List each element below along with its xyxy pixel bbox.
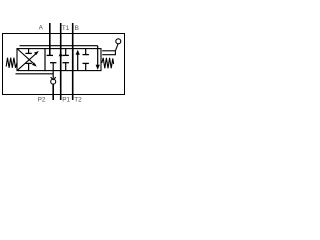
center box flow arrow P1 to T1 — [59, 52, 63, 56]
svg-text:A: A — [39, 24, 44, 31]
right box blocked port bottom — [85, 64, 87, 71]
center box blocked port P2 — [52, 63, 54, 71]
lever knob — [116, 39, 121, 44]
center box blocked port A — [47, 54, 53, 56]
right return spring — [102, 58, 114, 69]
valve position box right — [73, 49, 101, 71]
left return spring — [6, 58, 17, 68]
outer border frame — [3, 34, 125, 95]
left box blocked port top — [28, 49, 30, 54]
svg-text:T2: T2 — [74, 97, 82, 104]
lever fork upper line — [102, 50, 115, 52]
valve position box left — [17, 49, 45, 71]
port line A — [49, 23, 51, 55]
left box crossed arrow up-right — [18, 52, 38, 70]
valve position box center — [45, 49, 73, 71]
left box crossed arrow down-right — [18, 49, 36, 65]
wire top rail — [20, 45, 98, 47]
wire T1-P1 vertical — [60, 23, 62, 100]
lever fork end — [114, 51, 116, 55]
right box flow arrow up — [77, 54, 79, 71]
wire bottom rail — [16, 73, 54, 75]
P2 branch wire with check valve — [52, 71, 54, 79]
svg-text:T1: T1 — [62, 25, 70, 32]
check valve seat — [51, 77, 56, 79]
svg-text:P2: P2 — [38, 97, 46, 104]
left box blocked port bottom — [28, 64, 30, 71]
right box blocked port top — [85, 49, 87, 55]
lever arm — [115, 44, 118, 51]
center box blocked port top right — [65, 49, 67, 55]
P2 wire below circle — [52, 84, 54, 100]
lever fork lower line — [102, 54, 115, 56]
svg-text:P1: P1 — [62, 97, 70, 104]
center box blocked port bottom right — [65, 63, 67, 71]
right box flow arrow down — [97, 46, 99, 66]
wire B-T2 vertical — [72, 23, 74, 100]
check valve ball circle — [51, 79, 56, 84]
svg-text:B: B — [75, 25, 79, 32]
